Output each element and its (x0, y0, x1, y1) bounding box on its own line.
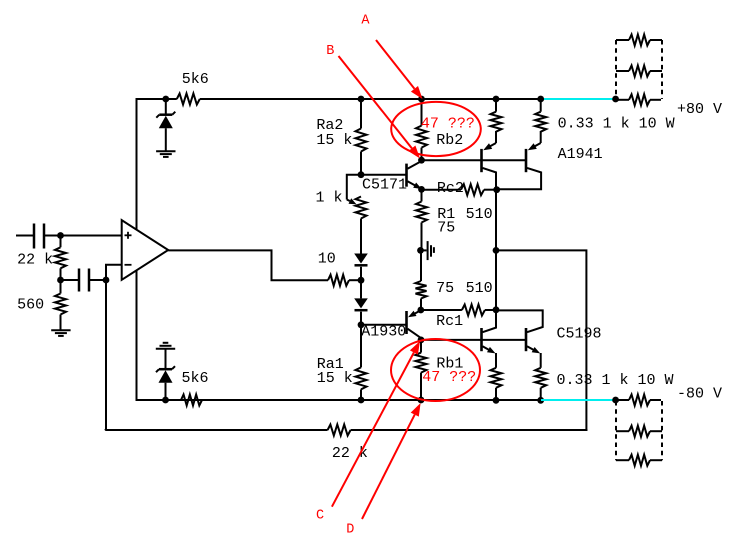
transistor Q3 A1941-1 (482, 131, 497, 190)
ground top zener (156, 151, 175, 157)
svg-text:C5171: C5171 (362, 176, 407, 193)
node lower base (418, 337, 425, 344)
node cyan top end (612, 96, 619, 103)
annotation 47 bottom (422, 369, 476, 386)
svg-text:A1930: A1930 (361, 324, 406, 341)
resistor 5k6 top (177, 71, 209, 105)
svg-text:1 k: 1 k (316, 190, 343, 207)
dashed network top (616, 35, 662, 106)
zener D4 (156, 343, 175, 400)
node feedback junction (103, 277, 110, 284)
capacitor C-fb (61, 269, 107, 292)
transistor Q6 C5198-2 (496, 310, 602, 367)
svg-text:15 k: 15 k (317, 370, 353, 387)
svg-text:Rc1: Rc1 (436, 313, 463, 330)
resistor 22 k feedback (328, 425, 368, 463)
ground load (421, 241, 434, 260)
node cyan bottom end (612, 397, 619, 404)
svg-text:D: D (346, 523, 354, 538)
node top zener tap (162, 96, 169, 103)
resistor Rb1 (416, 340, 464, 400)
svg-text:C5198: C5198 (557, 326, 602, 343)
resistor 75 lower (416, 250, 455, 310)
wire left vertical (136, 99, 138, 401)
resistor 5k6 bottom (181, 370, 209, 406)
node upper base (418, 157, 425, 164)
svg-text:0.33 1 k 10 W: 0.33 1 k 10 W (557, 372, 674, 389)
resistor Rb2 (416, 99, 463, 160)
wire feedback bottom left (105, 429, 328, 430)
node Ra2 top (358, 96, 365, 103)
resistor 0.33 top1 (491, 99, 502, 132)
node output (417, 247, 424, 254)
wire -input stub (106, 265, 122, 280)
label 033 top (558, 116, 675, 133)
wire cyan bottom (541, 399, 616, 401)
wire feedback riser (496, 250, 586, 431)
transistor Q4 A1941-2 (497, 131, 603, 189)
svg-text:75: 75 (437, 219, 455, 236)
node +input junction (57, 232, 64, 239)
annotation C (316, 341, 420, 523)
svg-text:+80 V: +80 V (677, 101, 722, 118)
transistor Q2 A1930 (361, 310, 422, 340)
resistor Rc1 510 (421, 280, 496, 330)
svg-text:5k6: 5k6 (182, 370, 209, 387)
node 033 top2 (537, 96, 544, 103)
annotation ellipse top (391, 102, 481, 156)
node 033 top1 (493, 96, 500, 103)
diode D2 (354, 280, 368, 325)
node drive (358, 277, 365, 284)
node bottom zener tap (162, 397, 169, 404)
svg-text:15 k: 15 k (316, 132, 352, 149)
resistor 22 k input (17, 236, 66, 281)
resistor 0.33 bot2 (535, 368, 546, 401)
wire cyan top (541, 98, 616, 100)
node Rc2 right (493, 186, 500, 193)
svg-text:560: 560 (17, 297, 44, 314)
zener D3 (156, 99, 175, 151)
wire feedback vertical (105, 280, 107, 429)
node Rc2 left (418, 186, 425, 193)
node Rc1 left (417, 307, 424, 314)
node feedback tap (493, 247, 500, 254)
svg-text:75: 75 (436, 280, 454, 297)
svg-text:47 ???: 47 ??? (422, 369, 476, 386)
annotation B (326, 44, 420, 158)
ground input divider (51, 330, 70, 336)
svg-text:510: 510 (466, 206, 493, 223)
svg-text:B: B (326, 44, 334, 59)
resistor 0.33 bot1 (491, 368, 502, 401)
resistor Ra1 15 k (317, 325, 367, 400)
resistor 10 (318, 251, 361, 286)
wire upper base run (422, 159, 527, 161)
resistor Rc2 510 (422, 180, 497, 223)
resistor Ra2 15 k (316, 99, 366, 175)
node Rb1 bottom (418, 397, 425, 404)
node bias pot junction (358, 171, 365, 178)
label +80V (677, 101, 722, 118)
node 22k-560 junction (57, 277, 64, 284)
annotation ellipse bottom (391, 339, 480, 401)
wire top rail (137, 99, 543, 100)
svg-text:A1941: A1941 (558, 146, 603, 163)
wire feedback bottom right (351, 429, 588, 431)
annotation D (346, 403, 420, 538)
node lower bias (358, 321, 365, 328)
label 033 bottom (557, 372, 674, 389)
node Ra1 bottom (358, 397, 365, 404)
transistor Q1 C5171 (361, 161, 422, 194)
wire op-amp output (168, 250, 328, 280)
svg-text:Rc2: Rc2 (437, 180, 464, 197)
svg-text:22 k: 22 k (17, 252, 53, 269)
svg-text:510: 510 (466, 280, 493, 297)
resistor 0.33 top2 (535, 99, 546, 132)
wire bottom rail (137, 399, 543, 401)
op-amp U1 (61, 220, 169, 280)
label -80V (677, 386, 722, 403)
svg-text:10: 10 (318, 251, 336, 268)
svg-text:C: C (316, 508, 324, 523)
svg-text:0.33 1 k 10 W: 0.33 1 k 10 W (558, 116, 675, 133)
capacitor C-in (input) (16, 224, 122, 249)
node 033 bot1 (493, 397, 500, 404)
dashed network bottom (616, 395, 662, 466)
svg-text:Rb2: Rb2 (436, 132, 463, 149)
annotation A (361, 14, 422, 99)
svg-text:-80 V: -80 V (677, 386, 722, 403)
transistor Q5 C5198-1 (482, 310, 497, 368)
resistor 560 (17, 280, 66, 330)
svg-text:47 ???: 47 ??? (421, 116, 475, 133)
potentiometer 1 k (316, 175, 367, 254)
node Rc1 right (493, 306, 500, 313)
annotation 47 top (421, 116, 475, 133)
svg-text:A: A (361, 14, 370, 29)
node Rb2 top (418, 96, 425, 103)
diode D1 (354, 254, 368, 281)
wire output column (495, 190, 497, 310)
node 033 bot2 (537, 397, 544, 404)
wire lower base run (421, 339, 526, 341)
svg-text:5k6: 5k6 (182, 71, 209, 88)
resistor R1 75 (416, 189, 455, 250)
